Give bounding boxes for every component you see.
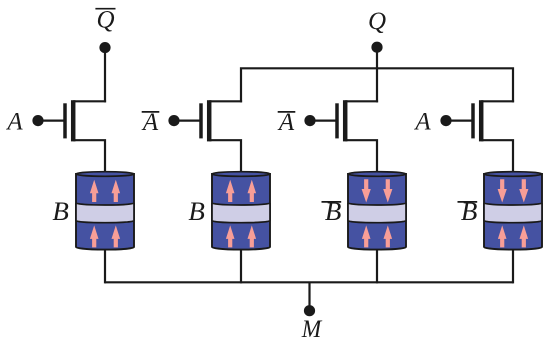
terminal dot Qbar: [99, 42, 110, 53]
wire bottom bus connecting all MTJ bottoms: [105, 281, 513, 283]
wire source lead of T4: [481, 140, 513, 176]
transistor T3 channel bar: [343, 100, 348, 141]
wire drain lead of T2: [209, 100, 242, 102]
label A for T1: [5, 109, 23, 136]
wire gate lead of T2: [174, 119, 200, 121]
wire MTJ1 bottom lead: [104, 248, 106, 283]
label Abar for T3: [277, 109, 295, 136]
svg-text:A: A: [413, 109, 431, 136]
node Q (label): [368, 8, 386, 35]
svg-text:M: M: [301, 316, 323, 343]
wire gate lead of T4: [446, 119, 472, 121]
transistor T4 channel bar: [479, 100, 484, 141]
label B for MTJ2: [188, 197, 205, 226]
wire gate lead of T1: [38, 119, 64, 121]
transistor T3 gate bar: [335, 103, 339, 138]
transistor T1 gate bar: [63, 103, 67, 138]
gate terminal dot of T4: [440, 115, 451, 126]
svg-text:Q: Q: [96, 6, 114, 33]
transistor T4 gate bar: [471, 103, 475, 138]
wire Qbar terminal to T1 drain: [104, 48, 106, 102]
terminal dot Q: [371, 42, 382, 53]
MTJ4 (Bbar) cylinder: [484, 172, 542, 250]
svg-text:Q: Q: [368, 8, 386, 35]
label Bbar for MTJ3: [322, 197, 342, 226]
wire drain lead of T3: [345, 100, 378, 102]
label Abar for T2: [141, 109, 159, 136]
label B for MTJ1: [52, 197, 69, 226]
gate terminal dot of T3: [304, 115, 315, 126]
node Qbar (label): [95, 6, 115, 33]
svg-text:A: A: [277, 109, 295, 136]
wire top bus connecting T2, T3, T4 drains: [241, 68, 513, 102]
MTJ1 (B) cylinder: [76, 172, 134, 250]
svg-text:B: B: [188, 197, 205, 226]
terminal dot M: [304, 305, 315, 316]
wire source lead of T3: [345, 140, 377, 176]
gate terminal dot of T2: [168, 115, 179, 126]
gate terminal dot of T1: [32, 115, 43, 126]
wire gate lead of T3: [310, 119, 336, 121]
MTJ3 (Bbar) cylinder: [348, 172, 406, 250]
wire MTJ2 bottom lead: [240, 248, 242, 283]
wire source lead of T2: [209, 140, 241, 176]
svg-text:A: A: [5, 109, 23, 136]
wire source lead of T1: [73, 140, 105, 176]
label Bbar for MTJ4: [458, 197, 478, 226]
wire M stub: [308, 282, 310, 310]
transistor T1 channel bar: [71, 100, 76, 141]
wire MTJ4 bottom lead: [512, 248, 514, 283]
wire MTJ3 bottom lead: [376, 248, 378, 283]
label A for T4: [413, 109, 431, 136]
MTJ2 (B) cylinder: [212, 172, 270, 250]
transistor T2 channel bar: [207, 100, 212, 141]
svg-text:A: A: [141, 109, 159, 136]
node M (label): [301, 316, 323, 343]
svg-text:B: B: [52, 197, 69, 226]
wire Q terminal to T3 drain (crosses top bus): [376, 48, 378, 102]
wire drain lead of T1: [73, 100, 106, 102]
wire drain lead of T4: [481, 100, 514, 102]
transistor T2 gate bar: [199, 103, 203, 138]
